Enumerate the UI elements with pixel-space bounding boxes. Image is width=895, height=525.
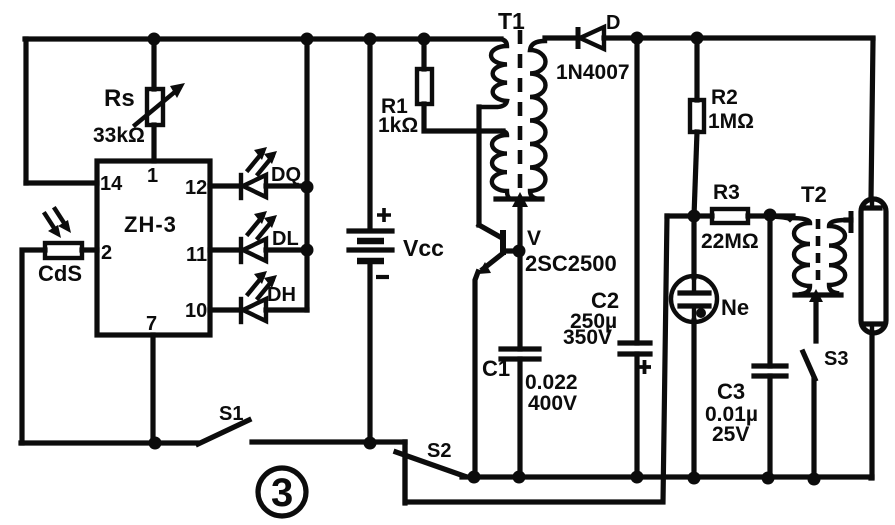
svg-text:2: 2 xyxy=(101,242,112,264)
node dot Ne rail xyxy=(688,472,701,485)
capacitor C2 xyxy=(620,343,650,354)
node dot top rail battery xyxy=(364,33,377,46)
wire collector down to C1 xyxy=(517,251,522,349)
wire R3 left branch down to lower rail xyxy=(405,216,667,502)
wire pin 12 to LED DQ xyxy=(210,183,240,188)
svg-text:DL: DL xyxy=(272,228,299,250)
capacitor C3 xyxy=(754,366,786,376)
wire top rail left section xyxy=(25,36,501,41)
wire R3 right arm xyxy=(748,213,793,218)
switch S2 xyxy=(396,452,464,476)
node dot S3 rail xyxy=(808,473,821,486)
svg-text:350V: 350V xyxy=(563,326,612,349)
node dot top rail C2 xyxy=(631,32,644,45)
wire C3 bottom xyxy=(767,376,772,478)
node dot DL column xyxy=(301,244,314,257)
wire battery bottom xyxy=(367,261,372,444)
resistor R1 xyxy=(417,69,432,104)
wire collector to T1 with arrow xyxy=(512,192,528,251)
svg-text:C3: C3 xyxy=(717,379,745,404)
wire R1 top stub xyxy=(421,39,426,69)
wire R1 bottom to T1 feedback winding xyxy=(424,104,503,131)
wire pin 2 to CdS xyxy=(82,247,97,252)
svg-text:14: 14 xyxy=(100,173,123,195)
wire pin 11 to LED DL xyxy=(210,247,240,252)
wire tube bottom to rail xyxy=(871,333,872,478)
node dot C2 rail xyxy=(631,471,644,484)
wire corner down xyxy=(402,442,407,503)
wire R2 bottom xyxy=(694,132,697,216)
wire pin 10 to LED DH xyxy=(210,307,240,312)
svg-text:7: 7 xyxy=(146,313,157,335)
wire CdS to left, down to bottom rail xyxy=(22,250,45,443)
wire R2 top stub xyxy=(694,38,699,100)
svg-text:1N4007: 1N4007 xyxy=(556,61,630,84)
wire Rs to pin 1 xyxy=(151,125,156,161)
wire top rail right corner down to tube xyxy=(871,39,873,199)
wire T1 tap to transistor base xyxy=(476,107,481,225)
svg-text:CdS: CdS xyxy=(38,261,82,286)
wire Ne bottom xyxy=(691,321,696,478)
node dot R2 R3 junction xyxy=(688,210,701,223)
svg-text:25V: 25V xyxy=(712,423,749,446)
wire left vertical (top rail to pin 14) xyxy=(23,39,28,183)
wire LED column vertical xyxy=(304,39,309,310)
transformer T1 core xyxy=(518,30,523,188)
wire middle bottom rail xyxy=(462,474,872,479)
wire battery top xyxy=(367,39,372,230)
wire C2 bottom xyxy=(634,354,639,477)
node dot top rail R2 xyxy=(691,32,704,45)
node dot top rail R1 xyxy=(418,33,431,46)
label + xyxy=(377,208,391,222)
svg-text:Vcc: Vcc xyxy=(403,235,444,261)
svg-text:Ne: Ne xyxy=(721,295,749,320)
svg-text:DQ: DQ xyxy=(271,164,301,186)
wire LED DQ to column xyxy=(266,183,307,188)
node dot pin 7 rail xyxy=(149,437,162,450)
wire pin 7 stub xyxy=(150,335,155,443)
diode D xyxy=(545,27,873,49)
svg-text:R3: R3 xyxy=(713,181,740,204)
op-amp U1 ZH-3 box xyxy=(97,161,210,335)
node dot C3 rail xyxy=(762,472,775,485)
svg-text:Rs: Rs xyxy=(104,85,135,112)
label - xyxy=(376,275,389,279)
label circled 3 xyxy=(258,468,306,516)
wire LED DL to column xyxy=(266,247,307,252)
node junction dot Rs top xyxy=(148,33,161,46)
svg-text:10: 10 xyxy=(185,300,207,322)
wire T2 secondary to tube electrode xyxy=(846,211,851,233)
neon lamp Ne xyxy=(671,276,717,322)
svg-text:1: 1 xyxy=(147,165,158,187)
transformer T1 primary upper winding xyxy=(479,39,507,107)
svg-text:11: 11 xyxy=(186,244,207,266)
switch S1 xyxy=(198,420,249,444)
node dot top rail LED column xyxy=(301,33,314,46)
svg-text:D: D xyxy=(606,12,620,34)
resistor R2 xyxy=(690,100,704,132)
wire C2 top xyxy=(634,38,639,343)
battery Vcc xyxy=(349,231,392,261)
wire T2 primary top xyxy=(770,216,790,219)
wire T2 bottom bar xyxy=(795,292,841,297)
transformer T2 primary winding xyxy=(790,218,810,294)
svg-text:T2: T2 xyxy=(801,182,827,207)
wire S3 stub with arrow xyxy=(809,289,823,341)
node dot R3 right xyxy=(764,209,777,222)
transformer T1 feedback winding xyxy=(492,131,511,199)
wire C3 top xyxy=(767,215,772,366)
wire S1 right to corner xyxy=(252,439,405,444)
svg-text:V: V xyxy=(527,227,541,250)
wire Rs top stub xyxy=(151,39,156,89)
svg-text:0.022: 0.022 xyxy=(525,371,578,394)
switch S3 xyxy=(803,352,815,379)
wire bottom left rail xyxy=(21,440,197,445)
svg-text:2SC2500: 2SC2500 xyxy=(525,251,617,276)
LED DL xyxy=(241,211,277,262)
svg-text:33kΩ: 33kΩ xyxy=(93,124,145,147)
svg-text:22MΩ: 22MΩ xyxy=(701,230,759,253)
svg-text:T1: T1 xyxy=(498,8,525,34)
wire S3 to rail xyxy=(811,379,816,480)
label C2 plus xyxy=(638,360,651,374)
photoresistor CdS xyxy=(45,209,82,258)
transformer T2 core xyxy=(816,219,821,284)
wire C1 down to rail xyxy=(517,359,522,477)
svg-text:S2: S2 xyxy=(427,440,451,462)
svg-text:DH: DH xyxy=(267,284,296,306)
resistor Rs xyxy=(135,83,185,125)
node dot emitter rail xyxy=(468,471,481,484)
svg-text:3: 3 xyxy=(271,471,293,515)
resistor R3 xyxy=(712,209,748,223)
node dot battery rail xyxy=(364,437,377,450)
svg-text:S3: S3 xyxy=(824,348,848,370)
wire Ne top xyxy=(691,216,696,277)
wire pin 14 to left vertical xyxy=(26,180,97,185)
svg-text:1kΩ: 1kΩ xyxy=(378,114,418,137)
LED DH xyxy=(241,271,277,322)
transformer T1 secondary winding xyxy=(530,41,545,199)
capacitor C1 xyxy=(501,349,539,359)
LED DQ xyxy=(241,147,277,198)
svg-text:C1: C1 xyxy=(482,356,510,381)
wire T1 bottom junction bar xyxy=(496,196,542,201)
svg-text:S1: S1 xyxy=(219,403,243,425)
transistor V 2SC2500 xyxy=(475,225,517,477)
node dot collector xyxy=(513,245,526,258)
transformer T2 secondary winding xyxy=(829,220,846,293)
svg-text:12: 12 xyxy=(185,177,207,199)
wire LED DH to column xyxy=(266,307,307,312)
svg-text:400V: 400V xyxy=(528,392,577,415)
node dot C1 rail xyxy=(513,471,526,484)
svg-text:R2: R2 xyxy=(711,86,738,109)
wire R3 left arm xyxy=(667,213,712,218)
node dot DQ column xyxy=(301,181,314,194)
svg-text:1MΩ: 1MΩ xyxy=(708,110,754,133)
fluorescent tube xyxy=(861,199,886,333)
svg-text:ZH-3: ZH-3 xyxy=(124,212,177,237)
